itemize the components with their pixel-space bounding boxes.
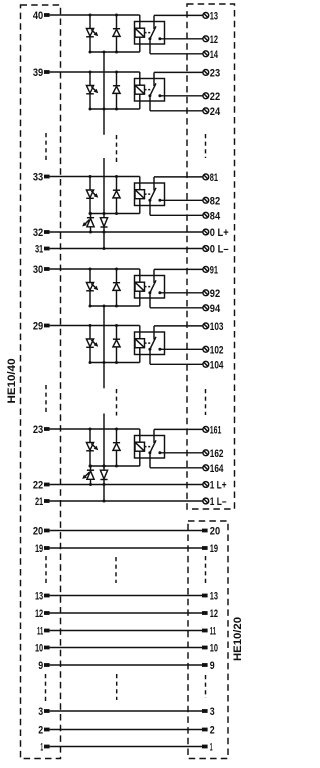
node bbox=[89, 483, 92, 486]
node bbox=[103, 305, 106, 308]
pin 20 (HE10/20) bbox=[202, 526, 220, 538]
svg-text:40: 40 bbox=[33, 10, 43, 22]
pin 39 (HE10/40) bbox=[33, 67, 50, 79]
node bbox=[103, 51, 106, 54]
pin 1 (HE10/20) bbox=[202, 742, 213, 754]
svg-text:162: 162 bbox=[210, 448, 224, 460]
pin 13 (HE10/40) bbox=[35, 590, 50, 602]
wire bbox=[50, 746, 202, 748]
wire bbox=[139, 177, 141, 190]
node bbox=[103, 231, 106, 234]
wire bbox=[50, 268, 140, 270]
wire bbox=[150, 349, 203, 364]
LED polarity bbox=[82, 466, 94, 485]
node bbox=[115, 108, 118, 111]
svg-text:1: 1 bbox=[40, 741, 43, 753]
wire bbox=[160, 452, 203, 454]
continuation marks bbox=[205, 675, 207, 698]
wire bbox=[50, 729, 202, 731]
wire 0 L+ bbox=[50, 231, 203, 233]
terminal 0 L+ bbox=[203, 227, 229, 239]
terminal 162 bbox=[203, 448, 224, 460]
relay K2 bbox=[135, 79, 165, 102]
contact K3 bbox=[148, 177, 161, 202]
wire bbox=[90, 108, 140, 110]
wire bbox=[139, 269, 141, 282]
svg-text:2: 2 bbox=[210, 725, 215, 737]
wire bbox=[50, 664, 202, 666]
terminal 91 bbox=[203, 264, 218, 276]
wire bbox=[139, 326, 141, 339]
svg-text:20: 20 bbox=[210, 526, 220, 538]
svg-text:103: 103 bbox=[210, 321, 224, 333]
svg-text:29: 29 bbox=[33, 320, 43, 332]
svg-text:HE10/20: HE10/20 bbox=[232, 617, 244, 661]
pin 32 (HE10/40) bbox=[33, 227, 50, 239]
node bbox=[103, 465, 106, 468]
wire bbox=[154, 14, 203, 16]
pin 9 (HE10/20) bbox=[202, 660, 215, 672]
svg-text:12: 12 bbox=[210, 608, 218, 620]
svg-text:1 L+: 1 L+ bbox=[210, 480, 227, 492]
pin 1 (HE10/40) bbox=[40, 741, 49, 753]
LED V4 bbox=[86, 269, 98, 306]
node bbox=[115, 428, 118, 431]
continuation marks bbox=[116, 135, 118, 162]
mechanical link bbox=[145, 342, 152, 344]
pin 9 (HE10/40) bbox=[38, 660, 49, 672]
pin 11 (HE10/20) bbox=[202, 626, 216, 638]
terminal 103 bbox=[203, 321, 224, 333]
pin 11 (HE10/40) bbox=[37, 625, 50, 637]
contact K1 bbox=[148, 15, 161, 40]
svg-text:1 L–: 1 L– bbox=[210, 496, 227, 508]
svg-text:12: 12 bbox=[35, 608, 43, 620]
diode polarity bbox=[100, 466, 107, 501]
LED V2 bbox=[86, 72, 98, 109]
continuation marks bbox=[45, 385, 47, 412]
svg-text:13: 13 bbox=[35, 590, 43, 602]
svg-text:0 L–: 0 L– bbox=[210, 244, 229, 256]
terminal 24 bbox=[203, 106, 221, 118]
terminal 14 bbox=[203, 49, 219, 61]
continuation marks bbox=[115, 557, 117, 583]
continuation marks bbox=[116, 674, 118, 700]
wire bbox=[139, 429, 141, 442]
diode D1 bbox=[113, 15, 120, 52]
node bbox=[103, 361, 106, 364]
connector HE10/20 outline bbox=[188, 521, 228, 759]
node bbox=[89, 305, 92, 308]
diode D2 bbox=[113, 72, 120, 109]
svg-text:9: 9 bbox=[210, 660, 215, 672]
svg-text:22: 22 bbox=[210, 91, 220, 103]
svg-text:84: 84 bbox=[210, 210, 221, 222]
svg-text:3: 3 bbox=[38, 706, 43, 718]
svg-text:10: 10 bbox=[35, 642, 43, 654]
svg-text:14: 14 bbox=[210, 49, 219, 61]
node bbox=[115, 465, 118, 468]
terminal 84 bbox=[203, 210, 221, 222]
wire 0 L– bbox=[50, 248, 203, 250]
pin 21 (HE10/40) bbox=[35, 496, 50, 508]
pin 40 (HE10/40) bbox=[33, 10, 50, 22]
wire bbox=[139, 15, 141, 28]
terminal 22 bbox=[203, 91, 220, 103]
svg-text:31: 31 bbox=[35, 243, 43, 255]
svg-text:23: 23 bbox=[33, 424, 43, 436]
svg-text:104: 104 bbox=[210, 359, 224, 371]
node bbox=[89, 175, 92, 178]
terminal 104 bbox=[203, 359, 224, 371]
net 0V group0 bbox=[103, 52, 105, 135]
LED polarity bbox=[82, 214, 94, 233]
node bbox=[103, 108, 106, 111]
wire bbox=[50, 176, 140, 178]
terminal 81 bbox=[203, 172, 218, 184]
pin 31 (HE10/40) bbox=[35, 243, 50, 255]
connector HE10/40 outline bbox=[21, 5, 61, 759]
svg-text:94: 94 bbox=[210, 303, 221, 315]
wire bbox=[154, 268, 203, 270]
wire 1 L+ bbox=[50, 484, 203, 486]
terminal 12 bbox=[203, 34, 218, 46]
mechanical link bbox=[145, 286, 152, 288]
node bbox=[103, 212, 106, 215]
wire bbox=[90, 213, 140, 215]
svg-text:11: 11 bbox=[37, 625, 43, 637]
relay K4 bbox=[135, 276, 165, 299]
pin 10 (HE10/40) bbox=[35, 642, 50, 654]
node bbox=[115, 324, 118, 327]
wire bbox=[160, 348, 203, 350]
svg-text:81: 81 bbox=[210, 172, 218, 184]
coil K6 bbox=[135, 442, 145, 466]
terminal 1 L+ bbox=[203, 480, 227, 492]
svg-text:30: 30 bbox=[33, 264, 43, 276]
pin 3 (HE10/40) bbox=[38, 706, 49, 718]
terminal 92 bbox=[203, 288, 220, 300]
LED V6 bbox=[86, 429, 98, 466]
node bbox=[103, 465, 106, 468]
terminal 161 bbox=[203, 424, 222, 436]
node bbox=[89, 231, 92, 234]
svg-text:24: 24 bbox=[210, 106, 221, 118]
terminal block outline bbox=[187, 4, 235, 509]
wire bbox=[90, 51, 140, 53]
node bbox=[89, 268, 92, 271]
wire bbox=[50, 647, 202, 649]
wire bbox=[150, 96, 203, 111]
pin 2 (HE10/20) bbox=[202, 725, 215, 737]
wire bbox=[150, 293, 203, 308]
node bbox=[103, 212, 106, 215]
node bbox=[89, 428, 92, 431]
mechanical link bbox=[145, 89, 152, 91]
LED V1 bbox=[86, 15, 98, 52]
terminal 23 bbox=[203, 67, 220, 79]
svg-text:19: 19 bbox=[35, 543, 43, 555]
continuation marks bbox=[116, 389, 118, 416]
node bbox=[89, 465, 92, 468]
svg-text:13: 13 bbox=[210, 591, 218, 603]
terminal 1 L– bbox=[203, 496, 227, 508]
terminal 94 bbox=[203, 303, 221, 315]
node bbox=[89, 14, 92, 17]
terminal 13 bbox=[203, 10, 218, 22]
coil K3 bbox=[135, 190, 145, 214]
wire bbox=[160, 95, 203, 97]
svg-text:9: 9 bbox=[38, 660, 43, 672]
wire bbox=[154, 428, 203, 430]
svg-text:11: 11 bbox=[210, 626, 216, 638]
wire bbox=[50, 530, 202, 532]
pin 12 (HE10/40) bbox=[35, 608, 50, 620]
pin 23 (HE10/40) bbox=[33, 424, 50, 436]
wire bbox=[150, 200, 203, 215]
svg-text:3: 3 bbox=[210, 706, 215, 718]
node bbox=[89, 71, 92, 74]
wire bbox=[90, 465, 140, 467]
wire bbox=[154, 71, 203, 73]
node bbox=[89, 465, 92, 468]
svg-text:102: 102 bbox=[210, 344, 224, 356]
svg-text:22: 22 bbox=[33, 479, 43, 491]
contact K2 bbox=[148, 72, 161, 97]
coil K4 bbox=[135, 282, 145, 306]
net 0V group1 bbox=[103, 363, 105, 389]
coil K5 bbox=[135, 339, 145, 363]
mechanical link bbox=[145, 193, 152, 195]
node bbox=[103, 500, 106, 503]
continuation marks bbox=[45, 133, 47, 160]
wire bbox=[160, 199, 203, 201]
wire bbox=[50, 71, 140, 73]
contact K5 bbox=[148, 326, 161, 351]
svg-text:92: 92 bbox=[210, 288, 220, 300]
pin 20 (HE10/40) bbox=[33, 525, 50, 537]
continuation marks bbox=[45, 556, 47, 584]
svg-text:21: 21 bbox=[35, 496, 43, 508]
pin 12 (HE10/20) bbox=[202, 608, 218, 620]
node bbox=[115, 71, 118, 74]
wire bbox=[160, 292, 203, 294]
node bbox=[115, 268, 118, 271]
wire bbox=[50, 710, 202, 712]
pin 2 (HE10/40) bbox=[38, 724, 49, 736]
wire bbox=[50, 547, 202, 549]
node bbox=[89, 212, 92, 215]
node bbox=[89, 51, 92, 54]
node bbox=[115, 51, 118, 54]
wire bbox=[50, 612, 202, 614]
pin 3 (HE10/20) bbox=[202, 706, 215, 718]
svg-text:10: 10 bbox=[210, 643, 218, 655]
node bbox=[115, 14, 118, 17]
wire bbox=[90, 362, 140, 364]
svg-text:19: 19 bbox=[210, 543, 218, 555]
LED V5 bbox=[86, 326, 98, 363]
pin 19 (HE10/20) bbox=[202, 543, 218, 555]
node bbox=[115, 305, 118, 308]
wire bbox=[50, 630, 202, 632]
net 0V group1 bbox=[103, 306, 105, 363]
diode polarity bbox=[100, 214, 107, 249]
svg-text:0 L+: 0 L+ bbox=[210, 227, 229, 239]
wire bbox=[160, 38, 203, 40]
terminal 82 bbox=[203, 195, 220, 207]
net 0V group0 bbox=[103, 158, 105, 214]
pin 30 (HE10/40) bbox=[33, 264, 50, 276]
wire bbox=[154, 176, 203, 178]
wire bbox=[50, 595, 202, 597]
node bbox=[115, 175, 118, 178]
svg-text:20: 20 bbox=[33, 525, 43, 537]
connector HE10/20 label bbox=[232, 617, 244, 661]
pin 10 (HE10/20) bbox=[202, 643, 218, 655]
coil K2 bbox=[135, 85, 145, 109]
node bbox=[89, 361, 92, 364]
wire bbox=[154, 325, 203, 327]
continuation marks bbox=[45, 674, 47, 702]
contact K4 bbox=[148, 269, 161, 294]
node bbox=[89, 324, 92, 327]
svg-text:39: 39 bbox=[33, 67, 43, 79]
pin 22 (HE10/40) bbox=[33, 479, 50, 491]
svg-text:13: 13 bbox=[210, 10, 218, 22]
svg-text:161: 161 bbox=[210, 424, 222, 436]
svg-text:12: 12 bbox=[210, 34, 218, 46]
LED V3 bbox=[86, 177, 98, 214]
diode D5 bbox=[113, 326, 120, 363]
svg-text:23: 23 bbox=[210, 67, 220, 79]
relay K1 bbox=[135, 22, 165, 45]
pin 33 (HE10/40) bbox=[33, 171, 50, 183]
relay K5 bbox=[135, 332, 165, 355]
contact K6 bbox=[148, 429, 161, 454]
node bbox=[103, 247, 106, 250]
continuation marks bbox=[205, 556, 207, 584]
connector HE10/40 label bbox=[6, 359, 18, 404]
diode D4 bbox=[113, 269, 120, 306]
node bbox=[115, 361, 118, 364]
diode D3 bbox=[113, 177, 120, 214]
node bbox=[89, 212, 92, 215]
node bbox=[103, 483, 106, 486]
diode D6 bbox=[113, 429, 120, 466]
svg-text:164: 164 bbox=[210, 463, 224, 475]
svg-text:82: 82 bbox=[210, 195, 220, 207]
pin 19 (HE10/40) bbox=[35, 543, 50, 555]
continuation marks bbox=[205, 389, 207, 415]
net 0V group1 bbox=[103, 414, 105, 467]
mechanical link bbox=[145, 32, 152, 34]
wire bbox=[150, 39, 203, 54]
coil K1 bbox=[135, 28, 145, 52]
relay K3 bbox=[135, 183, 165, 206]
svg-text:2: 2 bbox=[38, 724, 43, 736]
svg-text:91: 91 bbox=[210, 264, 218, 276]
wire bbox=[139, 72, 141, 85]
svg-text:33: 33 bbox=[33, 171, 43, 183]
wire bbox=[50, 325, 140, 327]
wire 1 L– bbox=[50, 500, 203, 502]
wire bbox=[50, 14, 140, 16]
terminal 0 L– bbox=[203, 244, 229, 256]
wire bbox=[90, 305, 140, 307]
terminal 102 bbox=[203, 344, 224, 356]
node bbox=[89, 108, 92, 111]
pin 29 (HE10/40) bbox=[33, 320, 50, 332]
pin 13 (HE10/20) bbox=[202, 591, 218, 603]
terminal 164 bbox=[203, 463, 224, 475]
svg-text:32: 32 bbox=[33, 227, 43, 239]
svg-text:1: 1 bbox=[210, 742, 213, 754]
relay K6 bbox=[135, 436, 165, 459]
mechanical link bbox=[145, 446, 152, 448]
svg-text:HE10/40: HE10/40 bbox=[6, 359, 18, 404]
wire bbox=[150, 453, 203, 468]
node bbox=[115, 212, 118, 215]
continuation marks bbox=[205, 134, 207, 158]
wire bbox=[50, 428, 140, 430]
